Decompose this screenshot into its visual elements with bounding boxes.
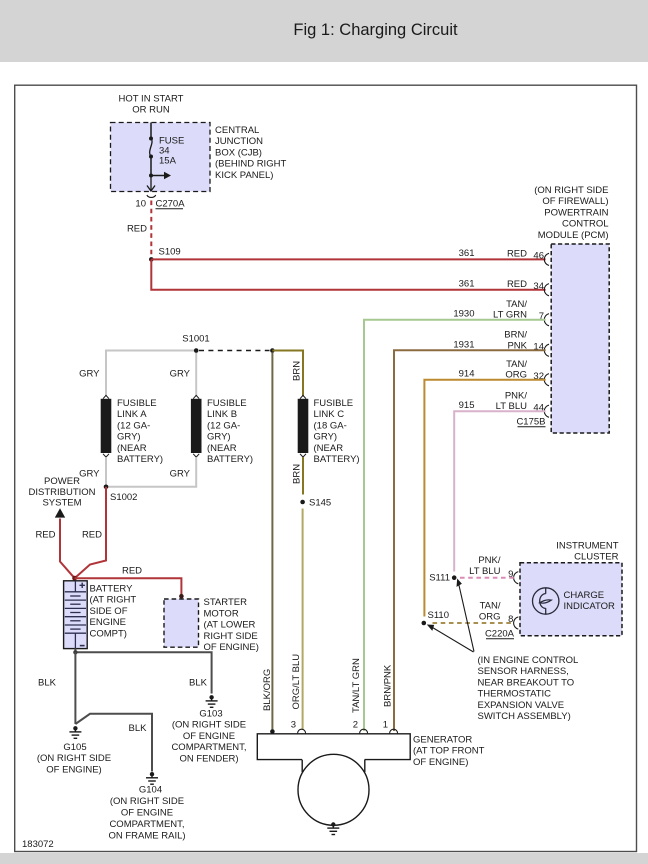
fusible link C (298, 395, 360, 465)
fusible link A (101, 395, 163, 465)
label: 915 PNK/LT BLU (459, 391, 528, 413)
label: PNK/LT BLU (cluster) (469, 555, 501, 577)
splice S110 (422, 610, 449, 625)
label: INSTRUMENT CLUSTER (556, 541, 618, 563)
connector C270A (cup symbol, pin 10) (135, 195, 185, 210)
svg-text:GENERATOR: GENERATOR (413, 735, 472, 746)
svg-text:BRN/: BRN/ (504, 330, 527, 341)
svg-text:G104: G104 (139, 785, 162, 796)
node: battery positive junction (72, 576, 77, 581)
svg-text:GRY: GRY (79, 469, 100, 480)
svg-text:GRY): GRY) (117, 432, 141, 443)
label: CHARGE INDICATOR (564, 590, 616, 612)
svg-text:LINK C: LINK C (314, 409, 345, 420)
cluster pin 9 connector (508, 569, 518, 584)
instrument cluster (dashed box) (520, 563, 622, 636)
label: GENERATOR (AT TOP FRONT OF ENGINE) (413, 735, 485, 768)
splice S1002 (104, 485, 138, 504)
svg-text:RIGHT SIDE: RIGHT SIDE (204, 631, 258, 642)
svg-text:BRN: BRN (292, 361, 303, 381)
svg-text:BATTERY): BATTERY) (207, 454, 253, 465)
svg-text:TAN/: TAN/ (506, 359, 527, 370)
svg-text:SYSTEM: SYSTEM (42, 498, 81, 509)
svg-text:34: 34 (533, 281, 544, 292)
wire: CJB exit with open arrowhead (147, 176, 155, 192)
wire: PNK/LT BLU 915 from S111 to PCM pin 44 (454, 411, 545, 571)
connector C175B label (516, 417, 545, 428)
label: G103 (ON RIGHT SIDE OF ENGINE COMPARTMENT, ON FENDER) (171, 709, 246, 765)
svg-text:(AT TOP FRONT: (AT TOP FRONT (413, 746, 485, 757)
svg-text:SIDE OF: SIDE OF (90, 606, 128, 617)
svg-text:BRN/PNK: BRN/PNK (382, 664, 393, 707)
footer bar (0, 853, 648, 864)
fusible link B (191, 395, 253, 465)
ground G105 (69, 726, 81, 738)
svg-text:GRY): GRY) (207, 432, 231, 443)
label: 1931 BRN/PNK (453, 330, 527, 352)
generator internal ground (327, 822, 339, 834)
battery (64, 581, 88, 649)
svg-text:COMPT): COMPT) (90, 628, 127, 639)
connector C220A label (485, 629, 515, 640)
svg-text:LINK B: LINK B (207, 409, 237, 420)
svg-text:OF ENGINE: OF ENGINE (121, 808, 173, 819)
svg-text:C220A: C220A (485, 629, 515, 640)
splice S109 (149, 247, 181, 262)
wire: BRN from link C down to S145 (302, 457, 304, 494)
svg-text:POWER: POWER (44, 476, 80, 487)
note arrow to S110 (427, 625, 474, 653)
svg-text:(12 GA-: (12 GA- (207, 420, 240, 431)
PCM pin 46 connector (533, 251, 549, 266)
svg-text:ON FENDER): ON FENDER) (179, 753, 238, 764)
svg-text:FUSIBLE: FUSIBLE (207, 398, 247, 409)
wire: RED from S1002 down to battery positive (75, 487, 106, 578)
wire: GRY from link A down to S1002 (105, 457, 107, 484)
off-page arrow to power distribution system (55, 508, 65, 517)
svg-text:46: 46 (533, 251, 544, 262)
central junction box CJB (dashed box) (111, 123, 211, 192)
svg-text:DISTRIBUTION: DISTRIBUTION (28, 487, 95, 498)
svg-text:BLK/ORG: BLK/ORG (262, 669, 273, 711)
svg-text:1931: 1931 (453, 339, 474, 350)
junction with feed arrow to other circuits (149, 172, 171, 179)
wire: GRY bus from fusible link A up to S1001 (106, 351, 194, 397)
svg-text:ORG: ORG (505, 370, 527, 381)
svg-text:10: 10 (135, 199, 146, 210)
svg-text:GRY): GRY) (314, 432, 338, 443)
label: G104 (ON RIGHT SIDE OF ENGINE COMPARTMENT, ON FRAME RAIL) (108, 785, 185, 842)
svg-text:MODULE (PCM): MODULE (PCM) (538, 230, 609, 241)
svg-text:(NEAR: (NEAR (207, 443, 237, 454)
svg-text:3: 3 (291, 720, 296, 731)
svg-text:OF FIREWALL): OF FIREWALL) (542, 196, 608, 207)
svg-text:914: 914 (459, 369, 475, 380)
svg-text:COMPARTMENT,: COMPARTMENT, (109, 819, 184, 830)
svg-text:C175B: C175B (516, 417, 545, 428)
svg-text:EXPANSION VALVE: EXPANSION VALVE (478, 700, 565, 711)
svg-text:(12 GA-: (12 GA- (117, 420, 150, 431)
node: junction of BLK/ORG and BRN (270, 348, 275, 353)
label: 361 RED (pin 34) (459, 278, 527, 290)
svg-text:INDICATOR: INDICATOR (564, 601, 616, 612)
wire: BLK battery drop to G105 (74, 652, 76, 724)
svg-text:G103: G103 (199, 709, 222, 720)
svg-text:GRY: GRY (170, 469, 191, 480)
label: TAN/ORG (cluster) (479, 601, 501, 623)
splice S145 (300, 498, 331, 509)
label: 914 TAN/ORG (459, 359, 528, 381)
svg-text:PNK/: PNK/ (478, 555, 501, 566)
svg-text:NEAR BREAKOUT TO: NEAR BREAKOUT TO (478, 677, 575, 688)
generator pin 3 connector (291, 720, 306, 734)
svg-text:BOX (CJB): BOX (CJB) (215, 147, 262, 158)
svg-text:OF ENGINE): OF ENGINE) (46, 764, 101, 775)
svg-text:RED: RED (127, 224, 147, 235)
PCM pin 32 connector (533, 371, 549, 386)
svg-text:(AT RIGHT: (AT RIGHT (90, 595, 137, 606)
svg-text:BLK: BLK (189, 678, 208, 689)
PCM pin 44 connector (533, 402, 549, 417)
wire: BLK/ORG from node down to generator case (271, 353, 273, 730)
label: STARTER MOTOR (AT LOWER RIGHT SIDE OF ENGINE) (204, 597, 259, 653)
splice S111 (429, 573, 456, 584)
svg-text:2: 2 (353, 720, 358, 731)
svg-text:C270A: C270A (156, 199, 186, 210)
svg-text:S145: S145 (309, 498, 331, 509)
svg-text:(ON RIGHT SIDE: (ON RIGHT SIDE (37, 753, 111, 764)
svg-text:CHARGE: CHARGE (564, 590, 605, 601)
svg-text:1930: 1930 (453, 309, 474, 320)
svg-text:GRY: GRY (170, 369, 191, 380)
splice S1001 (182, 334, 209, 353)
svg-text:GRY: GRY (79, 369, 100, 380)
starter motor (dashed box) (164, 599, 199, 647)
wire: dashed link S1001 to BLK/ORG node (199, 350, 270, 352)
wire: fuse to junction (150, 157, 152, 176)
svg-text:(ON RIGHT SIDE: (ON RIGHT SIDE (110, 796, 184, 807)
wire: PNK/LT BLU dashed from S111 to cluster pin 9 (460, 577, 515, 579)
svg-text:ORG: ORG (479, 612, 501, 623)
wire: RED battery feed to power distribution arrow (60, 519, 75, 579)
title bar (0, 0, 648, 62)
PCM pin 14 connector (533, 342, 549, 357)
label: G105 (ON RIGHT SIDE OF ENGINE) (37, 742, 111, 775)
svg-text:S109: S109 (159, 247, 181, 258)
svg-text:THERMOSTATIC: THERMOSTATIC (478, 689, 552, 700)
svg-text:RED: RED (122, 566, 142, 577)
wire: RED 361 to PCM pin 46 (151, 258, 545, 260)
label: 361 RED (pin 46) (459, 248, 527, 260)
svg-text:BLK: BLK (38, 678, 57, 689)
svg-text:BATTERY): BATTERY) (117, 454, 163, 465)
ground G104 (146, 772, 158, 784)
svg-text:BATTERY): BATTERY) (314, 454, 360, 465)
node: starter motor terminal (179, 594, 184, 599)
svg-text:LT BLU: LT BLU (496, 401, 527, 412)
svg-text:STARTER: STARTER (204, 597, 248, 608)
charge indicator lamp icon (533, 588, 559, 614)
svg-text:361: 361 (459, 248, 475, 259)
svg-text:RED: RED (507, 279, 527, 290)
svg-text:CLUSTER: CLUSTER (574, 552, 618, 563)
wire: RED dashed from C270A to S109 (150, 201, 152, 257)
svg-text:SENSOR HARNESS,: SENSOR HARNESS, (478, 666, 569, 677)
svg-text:183072: 183072 (22, 839, 54, 850)
cluster pin 8 connector (508, 614, 518, 629)
svg-text:FUSIBLE: FUSIBLE (117, 398, 157, 409)
wire: TAN/LT GRN 1930 to PCM pin 7 (364, 320, 546, 731)
svg-text:LT GRN: LT GRN (493, 310, 527, 321)
svg-text:LINK A: LINK A (117, 409, 147, 420)
wire: GRY from link B down and left to S1002 (108, 457, 196, 487)
wire: TAN/ORG 914 from S110 to PCM pin 32 (424, 380, 545, 617)
svg-text:CENTRAL: CENTRAL (215, 125, 259, 136)
svg-text:RED: RED (35, 530, 55, 541)
PCM pin 34 connector (533, 281, 549, 296)
svg-text:BLK: BLK (129, 723, 148, 734)
svg-text:OF ENGINE): OF ENGINE) (413, 757, 468, 768)
svg-text:G105: G105 (63, 742, 86, 753)
svg-text:S110: S110 (428, 610, 449, 621)
svg-text:BATTERY: BATTERY (90, 584, 134, 595)
label: 1930 TAN/LT GRN (453, 299, 527, 321)
svg-text:S111: S111 (429, 573, 450, 584)
svg-text:RED: RED (507, 249, 527, 260)
label: BATTERY (AT RIGHT SIDE OF ENGINE COMPT) (90, 584, 137, 640)
svg-text:(ON RIGHT SIDE: (ON RIGHT SIDE (534, 185, 608, 196)
svg-text:(18 GA-: (18 GA- (314, 420, 347, 431)
svg-text:TAN/: TAN/ (506, 299, 527, 310)
generator pin 1 connector (383, 720, 398, 734)
svg-text:(ON RIGHT SIDE: (ON RIGHT SIDE (172, 720, 246, 731)
powertrain control module PCM (dashed box) (551, 244, 609, 433)
svg-text:MOTOR: MOTOR (204, 608, 239, 619)
svg-text:OF ENGINE: OF ENGINE (183, 731, 235, 742)
note: (IN ENGINE CONTROL SENSOR HARNESS, NEAR BREAKOUT TO THERMOSTATIC EXPANSION VALVE SWITCH ASSEMBLY) (478, 655, 579, 722)
generator housing (257, 734, 410, 826)
svg-text:S1001: S1001 (182, 334, 209, 345)
svg-text:915: 915 (459, 400, 475, 411)
svg-text:RED: RED (82, 530, 102, 541)
generator pin 2 connector (353, 720, 368, 734)
svg-text:(BEHIND RIGHT: (BEHIND RIGHT (215, 159, 286, 170)
svg-text:(NEAR: (NEAR (117, 443, 147, 454)
wire: GRY from fusible link B up to S1001 (195, 351, 197, 397)
label: POWER DISTRIBUTION SYSTEM (28, 476, 95, 509)
wire: fuse feed inside CJB (150, 123, 152, 139)
PCM pin 7 connector (539, 311, 549, 326)
svg-text:PNK/: PNK/ (505, 391, 528, 402)
svg-text:KICK PANEL): KICK PANEL) (215, 170, 273, 181)
wire: BLK ground rail from battery negative (75, 649, 211, 694)
label: CENTRAL JUNCTION BOX (CJB) (BEHIND RIGHT KICK PANEL) (215, 125, 286, 181)
wire: ORG/LT BLU from S145 down to generator pin 3 (302, 509, 304, 730)
svg-text:1: 1 (383, 720, 388, 731)
wire: RED from battery positive to starter motor (75, 578, 182, 595)
svg-text:LT BLU: LT BLU (469, 566, 500, 577)
svg-text:361: 361 (459, 278, 475, 289)
svg-text:JUNCTION: JUNCTION (215, 136, 263, 147)
svg-text:TAN/LT GRN: TAN/LT GRN (351, 658, 362, 713)
svg-text:S1002: S1002 (110, 492, 137, 503)
svg-text:CONTROL: CONTROL (562, 219, 608, 230)
svg-text:FUSIBLE: FUSIBLE (314, 398, 354, 409)
label: (ON RIGHT SIDE OF FIREWALL) POWERTRAIN CONTROL MODULE (PCM) (534, 185, 608, 241)
svg-text:PNK: PNK (507, 340, 527, 351)
svg-text:COMPARTMENT,: COMPARTMENT, (171, 742, 246, 753)
svg-text:SWITCH ASSEMBLY): SWITCH ASSEMBLY) (478, 711, 571, 722)
svg-text:HOT IN START: HOT IN START (119, 94, 184, 105)
wire: BLK branch to G104 (75, 714, 152, 772)
svg-text:ENGINE: ENGINE (90, 617, 126, 628)
fuse F34 15A (149, 136, 184, 167)
svg-text:POWERTRAIN: POWERTRAIN (544, 207, 608, 218)
generator case terminal node (BLK/ORG) (270, 729, 275, 734)
svg-text:ON FRAME RAIL): ON FRAME RAIL) (108, 831, 185, 842)
svg-text:(IN ENGINE CONTROL: (IN ENGINE CONTROL (478, 655, 579, 666)
wire: RED 361 to PCM pin 34 (151, 259, 545, 289)
wire: TAN/ORG dashed from S110 to cluster pin 8 (433, 622, 515, 624)
ground G103 (206, 695, 218, 707)
svg-text:(NEAR: (NEAR (314, 443, 344, 454)
svg-text:OR RUN: OR RUN (132, 105, 170, 116)
svg-text:(AT LOWER: (AT LOWER (204, 620, 256, 631)
svg-text:TAN/: TAN/ (480, 601, 501, 612)
svg-text:ORG/LT BLU: ORG/LT BLU (291, 654, 302, 710)
svg-text:BRN: BRN (292, 464, 303, 484)
svg-text:INSTRUMENT: INSTRUMENT (556, 541, 618, 552)
svg-text:15A: 15A (159, 156, 177, 167)
label: HOT IN START OR RUN (119, 94, 184, 116)
wire: BRN from node to fusible link C (272, 351, 303, 397)
note arrow to S111 (457, 579, 475, 652)
wire: BRN/PNK 1931 to PCM pin 14 (394, 350, 546, 731)
